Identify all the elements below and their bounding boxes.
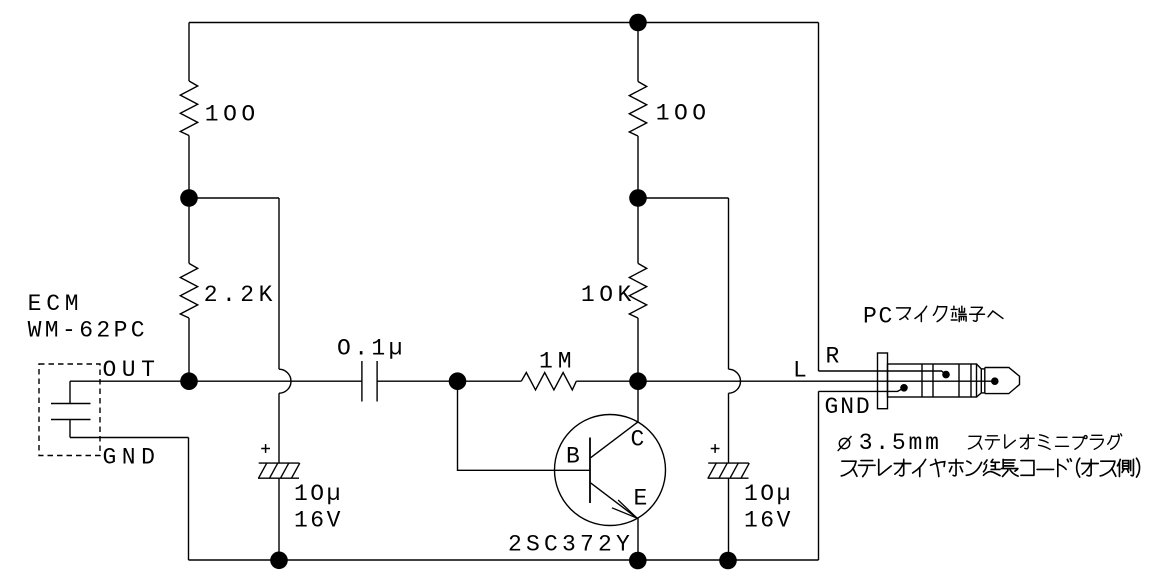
node base branch junction (449, 372, 467, 390)
wire left bypass to ground rail (278, 478, 280, 560)
wire hop over signal line (left) (279, 369, 291, 393)
label ステレオイヤホン延長コード（オス側） (stereo earphone ext. cord, male) (841, 458, 1139, 477)
svg-text:1M: 1M (539, 348, 577, 374)
node right bias junction (629, 189, 647, 207)
svg-text:R: R (826, 343, 840, 369)
svg-text:OUT: OUT (103, 357, 161, 383)
node right ground junction (719, 552, 737, 570)
svg-text:B: B (566, 444, 580, 470)
node collector junction (629, 372, 647, 390)
transistor Q1 2SC372Y (555, 415, 666, 526)
wire emitter to ground rail (637, 518, 639, 560)
wire collector (637, 381, 639, 422)
svg-text:L: L (793, 358, 807, 384)
node tip terminal (991, 377, 999, 385)
capacitor C2 10u 16V electrolytic (left) (259, 462, 300, 464)
svg-text:16V: 16V (744, 508, 793, 534)
wire center vertical lower (637, 318, 639, 381)
svg-text:1Oµ: 1Oµ (744, 481, 793, 507)
svg-text:ECM: ECM (28, 291, 84, 317)
wire ground to plug sleeve (819, 388, 905, 392)
node ring terminal (942, 371, 950, 379)
label PCマイク端子へ (to PC mic jack) (863, 304, 1003, 330)
svg-text:WM-62PC: WM-62PC (28, 318, 148, 344)
wire R power vertical (818, 23, 820, 372)
node mic out junction (180, 372, 198, 390)
wire signal line R5 to plug tip (576, 380, 995, 382)
wire right bypass to ground rail (728, 478, 730, 560)
svg-text:3.5mm: 3.5mm (859, 430, 942, 456)
wire top rail (189, 22, 819, 24)
wire base branch (458, 381, 591, 470)
node left ground junction (270, 552, 288, 570)
wire left bypass vertical lower (278, 393, 280, 463)
wire left bypass vertical upper (278, 198, 280, 369)
wire R to plug ring (819, 371, 947, 375)
wire bottom rail (189, 559, 819, 561)
wire center vertical middle (637, 136, 639, 263)
svg-text:1OK: 1OK (581, 282, 636, 308)
wire ground vertical to plug (818, 391, 820, 560)
node left bias junction (180, 189, 198, 207)
capacitor C3 10u 16V electrolytic (right) (708, 462, 749, 464)
wire mic ground vertical (188, 438, 190, 561)
wire hop over signal line (right) (729, 369, 741, 393)
svg-text:PC: PC (863, 304, 894, 330)
resistor R2 2.2K (180, 263, 197, 318)
resistor R3 100 (629, 82, 646, 137)
wire right bias branch horizontal (638, 197, 729, 199)
wire mic ground horizontal (70, 437, 189, 439)
node supply junction (629, 14, 647, 32)
svg-text:2.2K: 2.2K (204, 282, 277, 308)
svg-text:O.1µ: O.1µ (337, 336, 406, 362)
wire right bypass vertical upper (728, 198, 730, 369)
svg-text:C: C (631, 426, 645, 452)
svg-text:GND: GND (103, 445, 161, 471)
svg-text:16V: 16V (294, 508, 343, 534)
microphone MIC1 ECM WM-62PC (39, 364, 100, 456)
resistor R4 10K (629, 263, 646, 318)
wire left vertical lower (188, 318, 190, 381)
connector P1 3.5mm stereo mini plug (878, 353, 888, 409)
label Ø3.5mm ステレオミニプラグ (stereo mini plug) (838, 430, 1122, 456)
svg-text:1Oµ: 1Oµ (294, 481, 343, 507)
wire signal line mic to C1 (70, 380, 362, 382)
svg-text:E: E (634, 486, 648, 512)
svg-text:1OO: 1OO (205, 102, 260, 128)
capacitor C1 0.1u coupling (361, 361, 363, 402)
wire left vertical upper (188, 23, 190, 82)
wire left bias branch horizontal (189, 197, 279, 199)
wire center vertical upper (637, 23, 639, 82)
wire right bypass vertical lower (728, 393, 730, 463)
node sleeve terminal (900, 384, 908, 392)
wire left vertical middle (188, 136, 190, 264)
svg-text:GND: GND (825, 394, 872, 420)
resistor R1 100 (180, 81, 197, 136)
svg-text:1OO: 1OO (656, 101, 711, 127)
wire signal line C1 to R5 (377, 380, 521, 382)
resistor R5 1M feedback (521, 373, 576, 390)
node emitter ground junction (629, 552, 647, 570)
svg-text:2SC372Y: 2SC372Y (508, 532, 634, 558)
